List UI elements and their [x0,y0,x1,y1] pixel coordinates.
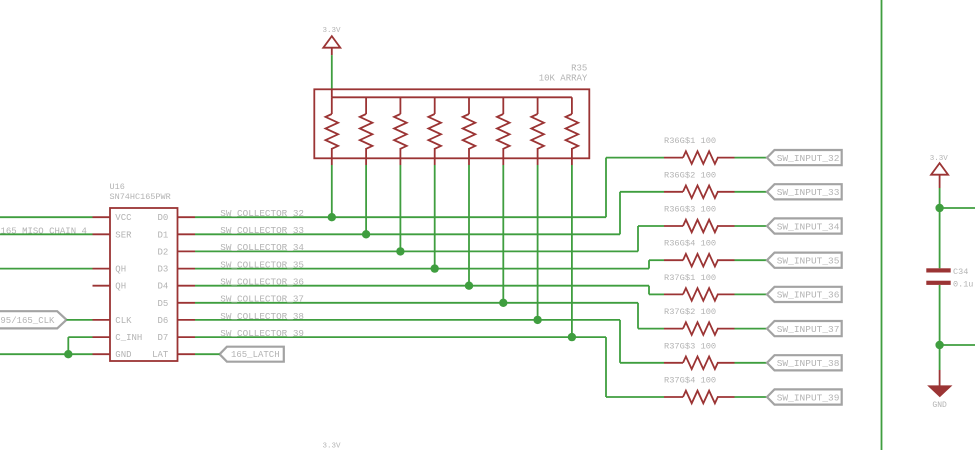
junction SW_COLLECTOR_34 / array [396,247,404,255]
svg-text:GND: GND [932,401,947,410]
svg-text:SW_INPUT_36: SW_INPUT_36 [777,290,840,301]
wire GND net [0,353,93,355]
resistor R36G$4 100 [664,259,683,261]
svg-text:SW_INPUT_39: SW_INPUT_39 [777,392,840,403]
U16 left pin CLK [93,319,111,321]
wire net SW_COLLECTOR_37 [195,302,638,304]
wire array element 5 down to row [468,165,470,286]
junction SW_COLLECTOR_36 / array [465,282,473,290]
svg-text:CLK: CLK [115,316,132,326]
svg-text:10K ARRAY: 10K ARRAY [539,73,588,83]
U16 right pin D6 [178,319,196,321]
wire SER net [0,233,93,235]
wire resistor 4 to flag [735,259,768,261]
svg-text:SW_INPUT_32: SW_INPUT_32 [777,153,840,164]
array resistor R35 element 6 [502,97,504,114]
svg-text:D2: D2 [157,247,168,257]
ground GND [939,370,941,386]
svg-text:R37G$4 100: R37G$4 100 [664,376,716,386]
wire resistor 3 to flag [735,225,768,227]
resistor R37G$4 100 [664,396,683,398]
wire array element 4 down to row [434,165,436,269]
svg-text:R35: R35 [571,63,587,73]
svg-text:R36G$4 100: R36G$4 100 [664,239,716,249]
wire resistor 5 to flag [735,293,768,295]
U16 left pin QH [93,285,111,287]
U16 left pin QH [93,268,111,270]
U16 left pin C_INH [93,336,111,338]
wire resistor 1 to flag [735,157,768,159]
resistor R36G$2 100 [664,191,683,193]
junction gnd branch [935,341,943,349]
svg-text:C_INH: C_INH [115,333,142,343]
wire 3.3V to array [331,55,333,89]
junction SW_COLLECTOR_38 / array [533,316,541,324]
junction SW_COLLECTOR_35 / array [431,264,439,272]
wire net SW_COLLECTOR_35 [195,268,649,270]
wire array element 2 down to row [365,165,367,234]
array resistor R35 element 8 [571,97,573,114]
svg-text:SER: SER [115,230,132,240]
resistor R36G$3 100 [664,225,683,227]
array resistor R35 element 3 [399,97,401,114]
wire array element 3 down to row [399,165,401,251]
svg-text:R37G$1 100: R37G$1 100 [664,273,716,283]
svg-text:SW_COLLECTOR_32: SW_COLLECTOR_32 [220,208,304,219]
svg-text:3.3V: 3.3V [930,155,949,163]
svg-text:165_LATCH: 165_LATCH [231,350,280,360]
wire net SW_COLLECTOR_39 [195,336,606,338]
flag SW_INPUT_38 [767,355,842,370]
wire long vertical net [881,0,883,450]
svg-text:R36G$2 100: R36G$2 100 [664,170,716,180]
wire VCC net [0,216,93,218]
array resistor R35 element 5 [468,97,470,114]
U16 right pin D0 [178,216,196,218]
svg-text:SW_INPUT_33: SW_INPUT_33 [777,187,840,198]
svg-text:R37G$3 100: R37G$3 100 [664,341,716,351]
wire net SW_COLLECTOR_38 [195,319,620,321]
flag SW_INPUT_39 [767,389,842,404]
flag SW_INPUT_36 [767,287,842,302]
array common rail [332,96,572,98]
wire LAT to flag [195,353,220,355]
op IC U16 SN74HC165PWR outline [110,208,178,361]
wire array element 1 down to row [331,165,333,217]
U16 right pin D7 [178,336,196,338]
wire net SW_COLLECTOR_33 [195,233,620,235]
U16 right pin D5 [178,302,196,304]
junction 3.3V branch [935,204,943,212]
array resistor R35 element 4 [434,97,436,114]
resistor R36G$1 100 [664,157,683,159]
wire net SW_COLLECTOR_32 [195,216,606,218]
flag 595/165_CLK [0,311,67,328]
svg-text:D1: D1 [157,230,168,240]
flag SW_INPUT_37 [767,321,842,336]
wire CLK net [67,319,93,321]
U16 right pin D3 [178,268,196,270]
U16 right pin LAT [178,353,196,355]
svg-text:SW_INPUT_34: SW_INPUT_34 [777,221,840,232]
flag SW_INPUT_34 [767,218,842,233]
U16 left pin VCC [93,216,111,218]
flag SW_INPUT_35 [767,253,842,268]
wire array element 6 down to row [502,165,504,303]
svg-text:3.3V: 3.3V [322,27,341,35]
svg-text:SW_COLLECTOR_35: SW_COLLECTOR_35 [220,259,304,270]
wire 3.3V branch right [940,207,975,209]
svg-text:VCC: VCC [115,213,132,223]
svg-text:595/165_CLK: 595/165_CLK [0,316,55,326]
svg-text:SW_INPUT_35: SW_INPUT_35 [777,256,840,267]
svg-text:3.3V: 3.3V [322,443,341,450]
flag SW_INPUT_33 [767,184,842,199]
U16 right pin D4 [178,285,196,287]
svg-text:SW_COLLECTOR_39: SW_COLLECTOR_39 [220,328,304,339]
svg-text:D5: D5 [157,299,168,309]
svg-text:R36G$3 100: R36G$3 100 [664,205,716,215]
flag 165_LATCH [220,347,284,362]
svg-text:LAT: LAT [152,350,169,360]
resistor R37G$3 100 [664,362,683,364]
flag SW_INPUT_32 [767,150,842,165]
wire resistor 8 to flag [735,396,768,398]
junction SW_COLLECTOR_33 / array [362,230,370,238]
wire resistor 7 to flag [735,362,768,364]
svg-text:QH: QH [115,265,126,275]
U16 right pin D2 [178,250,196,252]
svg-text:D6: D6 [157,316,168,326]
U16 left pin SER [93,233,111,235]
svg-text:R36G$1 100: R36G$1 100 [664,136,716,146]
svg-text:U16: U16 [110,182,125,192]
capacitor C34 [926,268,950,272]
svg-text:GND: GND [115,350,131,360]
wire net SW_COLLECTOR_34 [195,250,638,252]
junction SW_COLLECTOR_32 / array [328,213,336,221]
junction SW_COLLECTOR_39 / array [568,333,576,341]
svg-text:SW_COLLECTOR_38: SW_COLLECTOR_38 [220,311,304,322]
array resistor R35 element 2 [365,97,367,114]
wire C_INH to GND net [68,336,92,338]
junction SW_COLLECTOR_37 / array [499,299,507,307]
svg-text:SW_COLLECTOR_34: SW_COLLECTOR_34 [220,242,304,253]
array resistor R35 element 1 [331,97,333,114]
U16 right pin D1 [178,233,196,235]
svg-text:SW_INPUT_37: SW_INPUT_37 [777,324,840,335]
svg-text:SW_COLLECTOR_36: SW_COLLECTOR_36 [220,277,304,288]
U16 left pin GND [93,353,111,355]
array pin from rail to box top [331,89,333,97]
wire 3.3V down [939,188,941,268]
wire array element 7 down to row [537,165,539,320]
wire array element 8 down to row [571,165,573,337]
svg-text:SW_COLLECTOR_37: SW_COLLECTOR_37 [220,294,304,305]
svg-text:R37G$2 100: R37G$2 100 [664,307,716,317]
svg-text:SW_COLLECTOR_33: SW_COLLECTOR_33 [220,225,304,236]
svg-text:D7: D7 [157,333,168,343]
wire resistor 6 to flag [735,328,768,330]
svg-text:D4: D4 [157,282,168,292]
wire QH net [0,268,93,270]
svg-text:QH: QH [115,282,126,292]
resistor array R35 outline [314,89,589,158]
resistor R37G$1 100 [664,293,683,295]
svg-text:D3: D3 [157,265,168,275]
svg-text:0.1u: 0.1u [953,280,973,290]
junction C_INH/GND [64,350,72,358]
svg-text:C34: C34 [953,267,968,277]
wire net SW_COLLECTOR_36 [195,285,649,287]
wire gnd branch right [940,344,975,346]
svg-text:D0: D0 [157,213,168,223]
svg-text:SW_INPUT_38: SW_INPUT_38 [777,358,840,369]
svg-text:SN74HC165PWR: SN74HC165PWR [110,192,171,202]
wire resistor 2 to flag [735,191,768,193]
array resistor R35 element 7 [537,97,539,114]
resistor R37G$2 100 [664,328,683,330]
wire cap to gnd [939,285,941,370]
